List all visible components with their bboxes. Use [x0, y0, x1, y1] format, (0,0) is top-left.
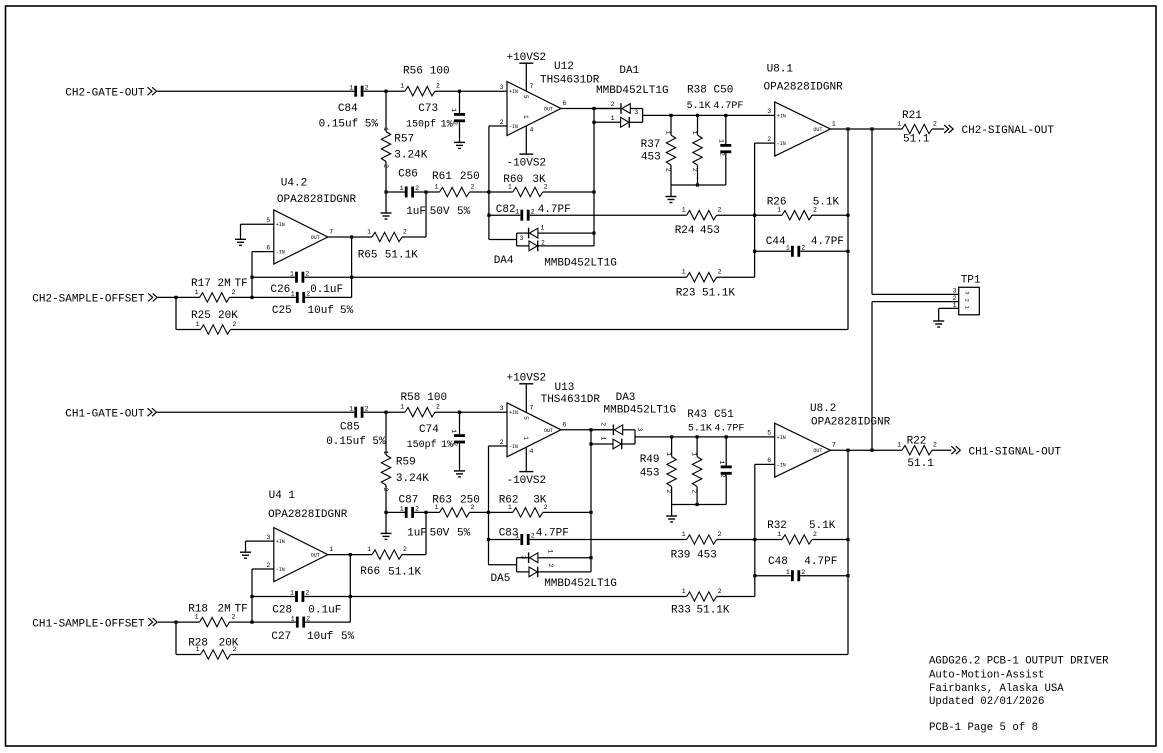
svg-text:-IN: -IN	[276, 250, 285, 256]
svg-text:1: 1	[290, 590, 294, 597]
svg-text:R25: R25	[191, 310, 211, 322]
svg-text:C44: C44	[766, 236, 786, 248]
svg-text:1: 1	[291, 291, 295, 298]
svg-text:2: 2	[541, 240, 545, 247]
svg-text:2: 2	[415, 506, 419, 513]
svg-text:1: 1	[682, 207, 686, 214]
svg-text:1: 1	[367, 546, 371, 553]
svg-text:3: 3	[964, 291, 971, 294]
svg-text:2: 2	[382, 488, 389, 492]
svg-text:CH1-SIGNAL-OUT: CH1-SIGNAL-OUT	[969, 446, 1062, 458]
svg-text:51.1K: 51.1K	[388, 566, 421, 578]
svg-text:C82: C82	[496, 204, 516, 216]
svg-text:TF: TF	[235, 603, 248, 615]
svg-text:R21: R21	[902, 110, 922, 122]
svg-text:+IN: +IN	[276, 539, 285, 545]
svg-text:2: 2	[436, 404, 440, 411]
svg-text:U4.2: U4.2	[281, 178, 307, 190]
svg-text:2: 2	[500, 119, 504, 126]
svg-text:2: 2	[436, 83, 440, 90]
svg-text:R33: R33	[671, 605, 691, 617]
svg-text:2: 2	[664, 168, 671, 172]
svg-text:3: 3	[634, 109, 638, 116]
svg-text:R60: R60	[503, 174, 523, 186]
svg-text:OUT: OUT	[813, 448, 822, 454]
svg-text:U12: U12	[554, 61, 574, 73]
svg-text:150pf: 150pf	[406, 119, 436, 131]
svg-text:150pf: 150pf	[407, 439, 437, 451]
svg-text:2: 2	[403, 229, 407, 236]
svg-text:2: 2	[415, 185, 419, 192]
svg-text:CH2-GATE-OUT: CH2-GATE-OUT	[65, 87, 145, 99]
svg-text:5: 5	[767, 430, 771, 437]
svg-text:2: 2	[471, 184, 475, 191]
svg-text:2M: 2M	[218, 603, 231, 615]
svg-text:3: 3	[767, 108, 771, 115]
svg-text:C28: C28	[272, 605, 292, 617]
svg-text:1: 1	[522, 436, 529, 440]
svg-text:-IN: -IN	[777, 141, 786, 147]
svg-text:2: 2	[531, 533, 535, 540]
svg-text:1: 1	[400, 404, 404, 411]
svg-text:C51: C51	[714, 409, 734, 421]
svg-text:250: 250	[460, 495, 480, 507]
svg-text:5%: 5%	[457, 527, 471, 539]
svg-text:C73: C73	[418, 103, 438, 115]
svg-text:1: 1	[382, 127, 389, 131]
svg-text:1: 1	[953, 302, 957, 309]
svg-text:2: 2	[964, 299, 971, 302]
svg-text:TP1: TP1	[961, 275, 981, 287]
svg-text:THS4631DR: THS4631DR	[541, 394, 601, 406]
svg-text:+IN: +IN	[509, 89, 518, 95]
svg-text:U8.2: U8.2	[810, 403, 836, 415]
svg-text:4: 4	[530, 127, 534, 134]
svg-text:2: 2	[719, 474, 726, 478]
svg-text:1: 1	[897, 442, 901, 449]
svg-text:-IN: -IN	[276, 567, 285, 573]
svg-text:3: 3	[500, 405, 504, 412]
svg-text:2: 2	[718, 269, 722, 276]
svg-text:OUT: OUT	[544, 428, 553, 434]
svg-text:6: 6	[563, 421, 567, 428]
svg-text:453: 453	[640, 468, 660, 480]
svg-text:7: 7	[530, 83, 534, 90]
svg-text:2: 2	[382, 164, 389, 168]
svg-text:6: 6	[266, 244, 270, 251]
svg-text:+10VS2: +10VS2	[506, 52, 546, 64]
svg-text:1: 1	[400, 506, 404, 513]
svg-text:453: 453	[700, 225, 720, 237]
svg-text:C48: C48	[768, 556, 788, 568]
svg-text:1: 1	[541, 224, 545, 231]
svg-text:2: 2	[801, 245, 805, 252]
svg-text:2: 2	[813, 531, 817, 538]
svg-text:2: 2	[305, 270, 309, 277]
svg-text:1uF: 1uF	[406, 206, 426, 218]
svg-text:1: 1	[522, 115, 529, 119]
svg-text:R38: R38	[687, 84, 707, 96]
svg-text:1: 1	[682, 269, 686, 276]
svg-text:1: 1	[450, 429, 457, 433]
svg-text:R39: R39	[671, 549, 691, 561]
svg-text:TF: TF	[235, 278, 248, 290]
svg-text:U8.1: U8.1	[767, 64, 794, 76]
svg-text:3: 3	[266, 534, 270, 541]
svg-text:CH1-GATE-OUT: CH1-GATE-OUT	[65, 408, 145, 420]
svg-text:51.1K: 51.1K	[385, 249, 418, 261]
svg-text:CH2-SAMPLE-OFFSET: CH2-SAMPLE-OFFSET	[32, 294, 145, 306]
svg-text:PCB-1 Page 5 of 8: PCB-1 Page 5 of 8	[929, 722, 1038, 734]
svg-text:-10VS2: -10VS2	[506, 475, 546, 487]
svg-text:C85: C85	[340, 421, 360, 433]
svg-text:2M: 2M	[218, 278, 231, 290]
svg-text:1: 1	[290, 270, 294, 277]
svg-text:3K: 3K	[532, 174, 546, 186]
svg-text:2: 2	[718, 531, 722, 538]
svg-text:7: 7	[832, 442, 836, 449]
svg-text:3: 3	[520, 235, 524, 242]
svg-text:6: 6	[563, 100, 567, 107]
svg-text:1: 1	[329, 546, 333, 553]
svg-text:U13: U13	[555, 382, 575, 394]
svg-text:OUT: OUT	[544, 107, 553, 113]
svg-text:3: 3	[500, 84, 504, 91]
svg-text:1: 1	[600, 437, 607, 441]
svg-text:R28: R28	[188, 637, 208, 649]
svg-text:R65: R65	[358, 249, 378, 261]
svg-text:2: 2	[718, 588, 722, 595]
svg-text:2: 2	[365, 84, 369, 91]
svg-text:Updated 02/01/2026: Updated 02/01/2026	[929, 696, 1044, 708]
svg-text:Fairbanks, Alaska USA: Fairbanks, Alaska USA	[929, 683, 1064, 695]
svg-text:+IN: +IN	[777, 113, 786, 119]
svg-text:1: 1	[690, 452, 697, 456]
svg-text:R59: R59	[396, 457, 416, 469]
svg-text:5.1K: 5.1K	[687, 101, 711, 112]
svg-text:1: 1	[682, 531, 686, 538]
svg-text:4: 4	[530, 448, 534, 455]
svg-text:R32: R32	[767, 520, 787, 532]
svg-text:R66: R66	[360, 566, 380, 578]
svg-text:THS4631DR: THS4631DR	[540, 74, 600, 86]
svg-text:DA4: DA4	[494, 255, 514, 267]
svg-text:2: 2	[531, 208, 535, 215]
svg-text:2: 2	[547, 563, 554, 567]
svg-text:+IN: +IN	[509, 410, 518, 416]
svg-text:OUT: OUT	[311, 235, 320, 241]
svg-text:51.1: 51.1	[907, 458, 934, 470]
svg-text:5%: 5%	[341, 631, 355, 643]
svg-text:50V: 50V	[430, 206, 450, 218]
svg-text:1: 1	[349, 405, 353, 412]
svg-text:OPA2828IDGNR: OPA2828IDGNR	[277, 194, 357, 206]
svg-text:2: 2	[933, 442, 937, 449]
svg-text:1uF: 1uF	[407, 527, 427, 539]
svg-text:2: 2	[690, 489, 697, 493]
svg-text:1: 1	[691, 131, 698, 135]
svg-text:5.1K: 5.1K	[688, 423, 712, 434]
svg-text:DA3: DA3	[616, 392, 636, 404]
svg-text:3K: 3K	[533, 495, 547, 507]
svg-text:453: 453	[697, 549, 717, 561]
svg-text:C50: C50	[714, 84, 734, 96]
svg-text:MMBD452LT1G: MMBD452LT1G	[544, 258, 617, 270]
svg-text:CH2-SIGNAL-OUT: CH2-SIGNAL-OUT	[962, 125, 1055, 137]
svg-text:5: 5	[522, 416, 529, 420]
svg-text:51.1K: 51.1K	[702, 287, 735, 299]
svg-text:1: 1	[682, 588, 686, 595]
svg-text:MMBD452LT1G: MMBD452LT1G	[596, 85, 669, 97]
svg-text:2: 2	[403, 546, 407, 553]
svg-text:-IN: -IN	[509, 444, 518, 450]
svg-text:2: 2	[233, 321, 237, 328]
svg-text:5%: 5%	[340, 305, 354, 317]
svg-text:20K: 20K	[219, 637, 239, 649]
svg-text:R22: R22	[907, 436, 927, 448]
svg-text:2: 2	[718, 207, 722, 214]
svg-text:50V: 50V	[430, 527, 450, 539]
svg-text:2: 2	[953, 295, 957, 302]
svg-text:1: 1	[786, 245, 790, 252]
svg-text:51.1: 51.1	[903, 134, 930, 146]
svg-text:OPA2828IDGNR: OPA2828IDGNR	[811, 417, 891, 429]
svg-text:+IN: +IN	[777, 435, 786, 441]
svg-text:7: 7	[530, 404, 534, 411]
svg-text:20K: 20K	[218, 310, 238, 322]
svg-text:1: 1	[382, 451, 389, 455]
svg-text:DA5: DA5	[491, 573, 511, 585]
svg-text:4.7PF: 4.7PF	[804, 556, 837, 568]
svg-text:R63: R63	[432, 495, 452, 507]
svg-text:100: 100	[427, 392, 447, 404]
svg-text:4.7PF: 4.7PF	[538, 204, 571, 216]
svg-text:OPA2828IDGNR: OPA2828IDGNR	[764, 81, 844, 93]
svg-text:5.1K: 5.1K	[813, 196, 840, 208]
svg-text:3: 3	[953, 287, 957, 294]
svg-text:MMBD452LT1G: MMBD452LT1G	[604, 405, 677, 417]
svg-text:1: 1	[718, 139, 725, 143]
svg-text:-IN: -IN	[509, 124, 518, 130]
svg-text:1%: 1%	[441, 440, 453, 451]
svg-text:2: 2	[933, 121, 937, 128]
svg-text:5%: 5%	[457, 206, 471, 218]
svg-text:1: 1	[450, 108, 457, 112]
svg-text:4.7PF: 4.7PF	[714, 423, 744, 434]
svg-text:1: 1	[400, 83, 404, 90]
svg-text:2: 2	[801, 569, 805, 576]
svg-text:4.7PF: 4.7PF	[811, 236, 844, 248]
svg-text:OUT: OUT	[311, 553, 320, 559]
svg-text:1: 1	[665, 452, 672, 456]
svg-text:R43: R43	[687, 409, 707, 421]
svg-text:51.1K: 51.1K	[697, 605, 730, 617]
svg-text:1: 1	[515, 208, 519, 215]
svg-text:1: 1	[367, 229, 371, 236]
svg-text:100: 100	[430, 66, 450, 78]
svg-text:10uf: 10uf	[307, 631, 333, 643]
svg-text:2: 2	[767, 136, 771, 143]
svg-text:R62: R62	[499, 495, 519, 507]
svg-text:R61: R61	[432, 171, 452, 183]
svg-text:R17: R17	[191, 278, 211, 290]
svg-text:1: 1	[196, 321, 200, 328]
svg-text:2: 2	[365, 405, 369, 412]
svg-text:1: 1	[832, 121, 836, 128]
svg-text:1: 1	[349, 84, 353, 91]
svg-text:C83: C83	[499, 527, 519, 539]
svg-text:5: 5	[266, 217, 270, 224]
svg-text:1%: 1%	[441, 120, 453, 131]
svg-text:2: 2	[305, 590, 309, 597]
svg-text:1: 1	[786, 569, 790, 576]
svg-text:453: 453	[641, 152, 661, 164]
svg-text:0.15uf 5%: 0.15uf 5%	[326, 436, 386, 448]
svg-text:R37: R37	[641, 139, 661, 151]
svg-text:-10VS2: -10VS2	[506, 158, 546, 170]
svg-text:4.7PF: 4.7PF	[536, 527, 569, 539]
svg-text:C87: C87	[399, 495, 419, 507]
svg-text:R56: R56	[403, 66, 423, 78]
svg-text:1: 1	[664, 131, 671, 135]
svg-text:2: 2	[691, 168, 698, 172]
svg-text:C84: C84	[338, 103, 358, 115]
svg-text:1: 1	[777, 531, 781, 538]
svg-text:2: 2	[719, 152, 726, 156]
svg-text:1: 1	[435, 184, 439, 191]
svg-text:1: 1	[897, 121, 901, 128]
svg-text:4.7PF: 4.7PF	[713, 101, 743, 112]
svg-text:R18: R18	[188, 603, 208, 615]
svg-text:2: 2	[611, 101, 615, 108]
svg-text:+10VS2: +10VS2	[506, 372, 546, 384]
svg-text:2: 2	[665, 489, 672, 493]
svg-text:CH1-SAMPLE-OFFSET: CH1-SAMPLE-OFFSET	[32, 618, 145, 630]
svg-text:1: 1	[547, 549, 554, 553]
svg-text:C26: C26	[270, 284, 290, 296]
svg-text:3.24K: 3.24K	[394, 150, 427, 162]
svg-text:1: 1	[718, 461, 725, 465]
svg-text:C25: C25	[272, 305, 292, 317]
svg-text:1: 1	[611, 115, 615, 122]
svg-text:2: 2	[600, 422, 607, 426]
svg-text:0.1uF: 0.1uF	[310, 284, 343, 296]
svg-text:3: 3	[636, 427, 643, 431]
svg-text:OUT: OUT	[813, 127, 822, 133]
svg-text:R49: R49	[640, 454, 660, 466]
svg-text:7: 7	[329, 229, 333, 236]
svg-text:5.1K: 5.1K	[809, 520, 836, 532]
svg-text:0.15uf 5%: 0.15uf 5%	[319, 119, 379, 131]
svg-text:250: 250	[460, 171, 480, 183]
svg-text:0.1uF: 0.1uF	[308, 605, 341, 617]
svg-text:1: 1	[400, 185, 404, 192]
svg-text:MMBD452LT1G: MMBD452LT1G	[544, 578, 617, 590]
svg-text:10uf: 10uf	[308, 305, 334, 317]
svg-text:3.24K: 3.24K	[396, 473, 429, 485]
svg-text:3: 3	[520, 555, 527, 559]
svg-text:2: 2	[500, 439, 504, 446]
svg-text:R26: R26	[767, 196, 787, 208]
svg-text:2: 2	[266, 562, 270, 569]
svg-text:C74: C74	[419, 424, 439, 436]
svg-text:OPA2828IDGNR: OPA2828IDGNR	[268, 509, 348, 521]
svg-text:AGDG26.2 PCB-1 OUTPUT DRIVER: AGDG26.2 PCB-1 OUTPUT DRIVER	[929, 656, 1109, 668]
svg-text:C86: C86	[398, 169, 418, 181]
svg-text:+IN: +IN	[276, 222, 285, 228]
svg-text:R23: R23	[676, 287, 696, 299]
svg-text:6: 6	[767, 457, 771, 464]
svg-text:R57: R57	[394, 134, 414, 146]
svg-text:R58: R58	[401, 392, 421, 404]
svg-text:U4 1: U4 1	[269, 490, 296, 502]
svg-text:C27: C27	[271, 631, 291, 643]
svg-text:R24: R24	[675, 225, 695, 237]
svg-text:DA1: DA1	[619, 65, 639, 77]
svg-text:5: 5	[522, 95, 529, 99]
svg-text:-IN: -IN	[777, 462, 786, 468]
svg-text:Auto-Motion-Assist: Auto-Motion-Assist	[929, 670, 1044, 682]
